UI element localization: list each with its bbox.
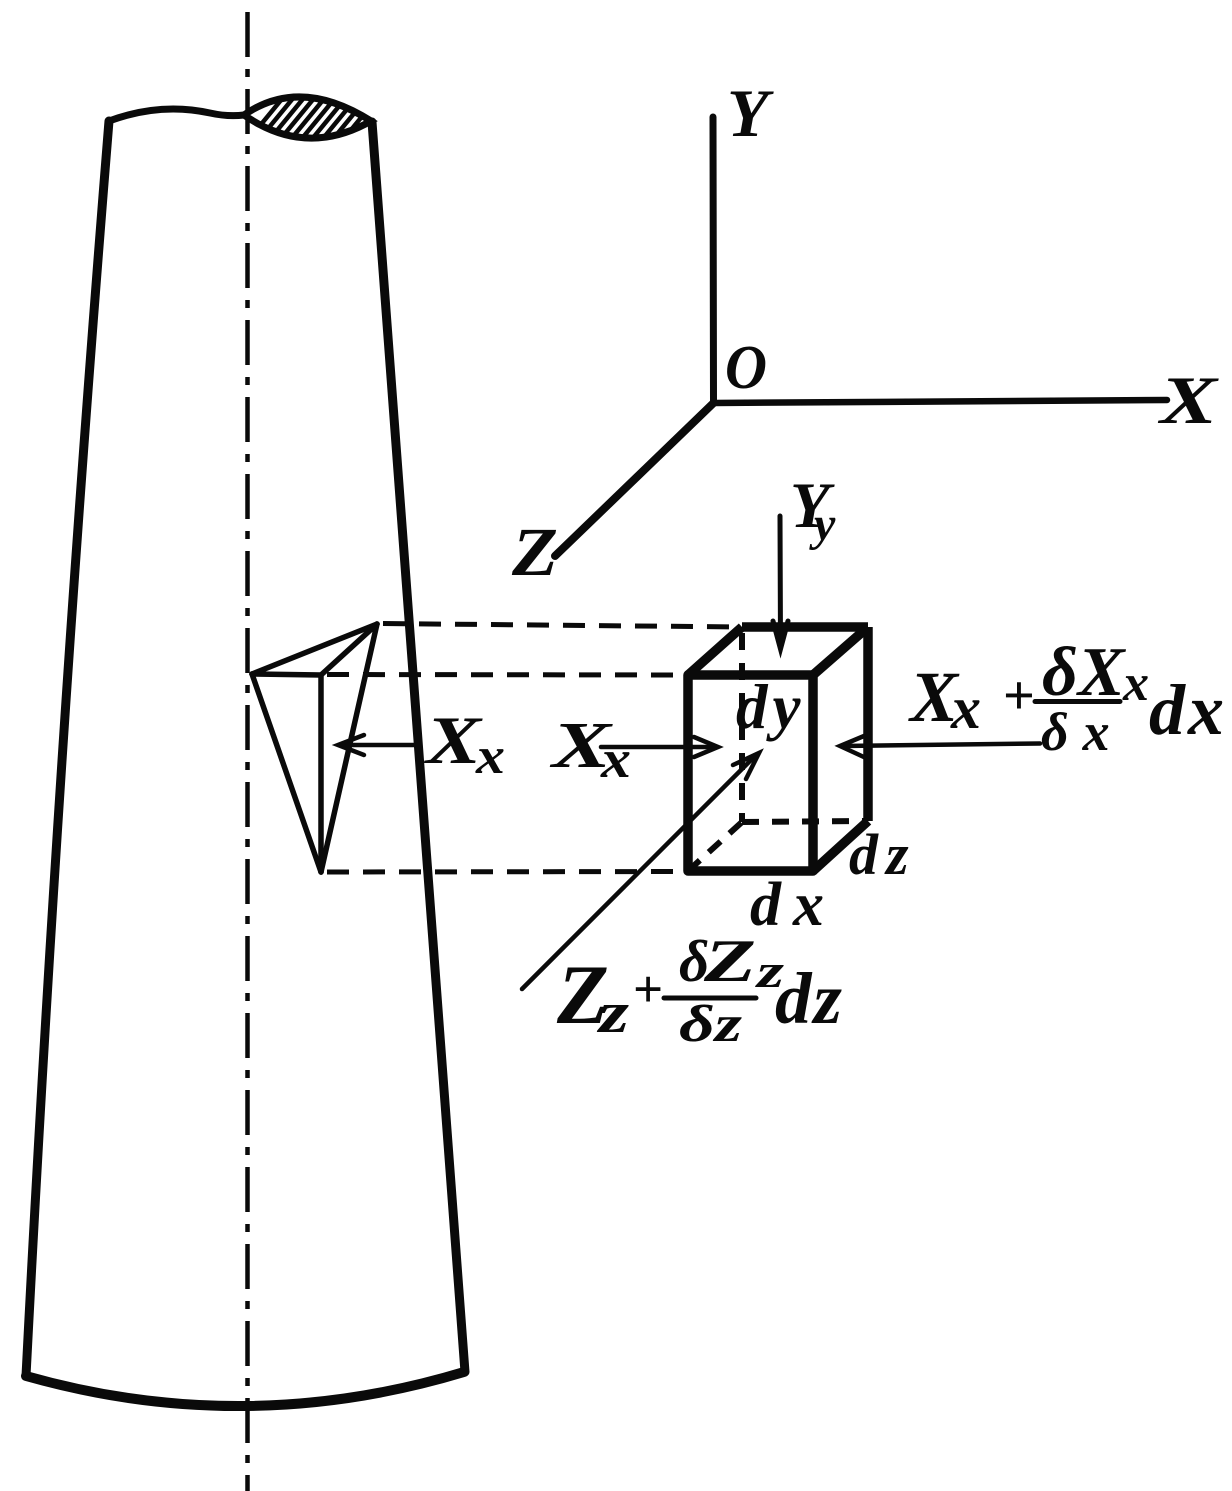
label O (origin) xyxy=(725,334,767,402)
svg-text:dz: dz xyxy=(849,822,917,887)
label Y (axis) xyxy=(727,75,774,151)
label Yy xyxy=(790,470,836,551)
centerline (dash-dot axis of column) xyxy=(245,12,250,1491)
top section lens outline xyxy=(244,97,371,138)
svg-text:X: X xyxy=(424,702,483,778)
wedge tetrahedron in column xyxy=(252,624,377,872)
Y axis xyxy=(710,117,718,403)
label Xx + dXx/dx dx xyxy=(908,634,1227,762)
svg-text:δz: δz xyxy=(679,996,743,1053)
svg-text:x: x xyxy=(950,675,981,741)
label dz (right of cube bottom) xyxy=(849,822,917,887)
arrow into right face (for Xx + dXx/dx dx) xyxy=(840,736,1040,758)
dashed construction line top (apex to cube back-top-left) xyxy=(383,624,742,628)
fraction bar (dZz/dz) xyxy=(664,996,756,1001)
svg-text:X: X xyxy=(1157,362,1219,438)
dashed construction line middle (wedge front vertex to cube front-top-left) xyxy=(327,672,688,678)
column top break wave xyxy=(109,109,244,121)
column right edge xyxy=(372,122,465,1372)
cube element solid edges xyxy=(688,627,868,871)
label dx (below cube) xyxy=(750,871,836,939)
label Xx (left) xyxy=(424,702,505,785)
svg-text:dx: dx xyxy=(1149,670,1227,750)
column left edge xyxy=(26,121,109,1376)
label Xx (right, with arrow into cube) xyxy=(549,709,631,789)
label dy (inside cube) xyxy=(736,672,805,742)
dashed construction line bottom (wedge bottom vertex to cube front-bottom-left) xyxy=(327,869,688,875)
svg-text:+: + xyxy=(633,961,663,1019)
label Zz + dZz/dz dz xyxy=(556,928,844,1053)
arrow Yy pointing down into cube top xyxy=(773,516,788,649)
svg-text:Y: Y xyxy=(727,75,774,151)
svg-text:Z: Z xyxy=(511,514,558,590)
Z axis xyxy=(555,403,714,556)
svg-text:x: x xyxy=(475,728,505,785)
svg-text:Z: Z xyxy=(703,928,756,994)
arrow Xx pointing right into cube left face xyxy=(601,737,718,757)
arrow Xx pointing left (on wedge) xyxy=(338,735,414,755)
label Z (axis) xyxy=(511,514,558,590)
svg-text:x: x xyxy=(1122,655,1149,712)
svg-text:O: O xyxy=(725,334,767,402)
label X (axis) xyxy=(1157,362,1219,438)
svg-text:dx: dx xyxy=(750,871,836,939)
svg-text:z: z xyxy=(596,980,629,1045)
lens hatching xyxy=(240,94,412,150)
diagonal arrow Zz (pointing up-right at cube front face) xyxy=(522,753,759,989)
svg-text:dy: dy xyxy=(736,672,805,742)
svg-text:dz: dz xyxy=(775,958,844,1039)
fraction bar (dXx/dx) xyxy=(1035,699,1120,704)
column bottom curve xyxy=(26,1372,464,1406)
X axis xyxy=(714,400,1168,403)
svg-text:x: x xyxy=(600,729,631,789)
cube hidden edges (dashed) xyxy=(688,633,868,871)
svg-text:δx: δx xyxy=(1041,702,1124,762)
svg-text:+: + xyxy=(1003,665,1035,727)
svg-text:y: y xyxy=(809,498,836,551)
